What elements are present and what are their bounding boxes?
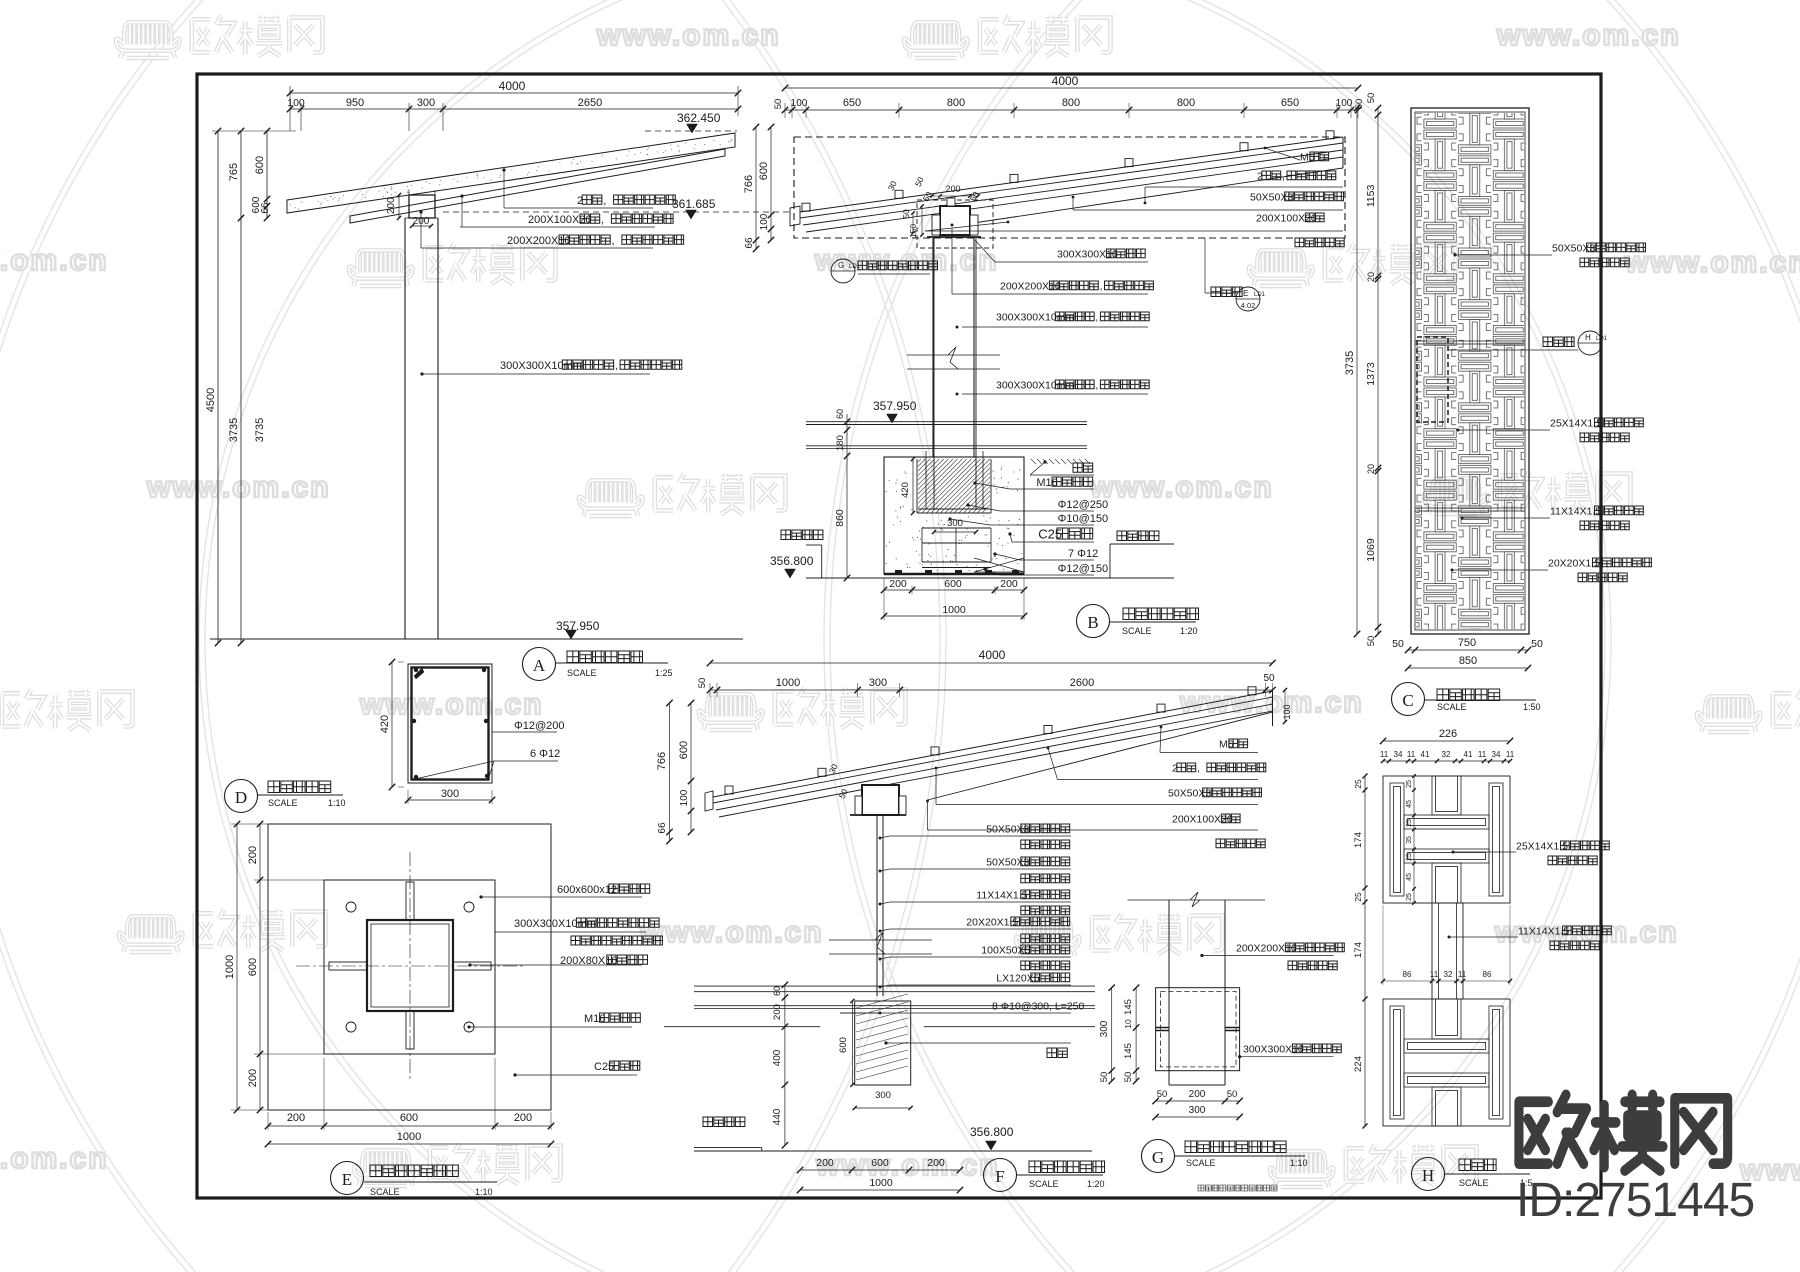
svg-text:145: 145	[1123, 999, 1134, 1015]
svg-text:10: 10	[1123, 1019, 1133, 1029]
A ground line	[210, 638, 743, 640]
svg-text:11: 11	[1458, 970, 1467, 979]
svg-text:86: 86	[1403, 970, 1412, 979]
svg-text:www.om.cn: www.om.cn	[0, 244, 109, 277]
svg-text:25: 25	[1406, 853, 1413, 861]
svg-text:45: 45	[1406, 873, 1413, 881]
svg-text:1153: 1153	[1365, 185, 1377, 208]
B detail bubble E/LD1	[1204, 238, 1206, 293]
svg-text:100: 100	[791, 98, 808, 109]
svg-text:SCALE: SCALE	[567, 668, 597, 678]
svg-text:E: E	[342, 1170, 352, 1189]
svg-text:300: 300	[1099, 1020, 1110, 1037]
svg-text:25: 25	[1406, 893, 1413, 901]
svg-text:11: 11	[1478, 750, 1487, 759]
E column 300	[367, 920, 453, 1011]
svg-text:860: 860	[834, 509, 846, 527]
svg-text:950: 950	[346, 97, 364, 109]
G column tube	[1168, 900, 1170, 1085]
svg-text:50: 50	[1392, 638, 1404, 650]
B break symbol	[907, 354, 1000, 356]
svg-text:11: 11	[1430, 970, 1439, 979]
svg-text:1000: 1000	[942, 604, 966, 616]
B anchor hatch zone	[916, 459, 918, 513]
svg-text:25: 25	[1353, 779, 1363, 789]
svg-text:www.om.cn: www.om.cn	[639, 916, 824, 949]
svg-text:32: 32	[1444, 970, 1453, 979]
B carport slab right	[1117, 531, 1159, 541]
svg-text:400: 400	[772, 1049, 783, 1066]
svg-text:,: ,	[1095, 311, 1098, 323]
A label 300X300X10 column	[420, 372, 423, 375]
svg-text:200X80X10: 200X80X10	[560, 955, 618, 967]
svg-text:1000: 1000	[397, 1131, 421, 1143]
C right labels	[1454, 254, 1457, 257]
svg-text:440: 440	[772, 1108, 783, 1125]
F left dims	[669, 703, 671, 841]
B G/LD1 bubble left	[831, 259, 855, 283]
svg-text:SCALE: SCALE	[370, 1187, 400, 1197]
svg-text:50: 50	[1227, 1089, 1238, 1100]
E outer pad	[268, 824, 551, 1110]
svg-text:1:10: 1:10	[475, 1187, 493, 1197]
B foundation block	[884, 457, 1024, 574]
svg-text:300X300X10mm: 300X300X10mm	[514, 918, 596, 930]
svg-text:34: 34	[1394, 750, 1403, 759]
svg-text:50X50X3: 50X50X3	[1250, 191, 1293, 203]
svg-text:66: 66	[260, 202, 271, 214]
svg-text:SCALE: SCALE	[1122, 626, 1152, 636]
G labels	[1200, 954, 1203, 957]
svg-text:200X200X10: 200X200X10	[1236, 942, 1297, 954]
svg-text:100: 100	[1282, 704, 1292, 719]
svg-text:Φ10@150: Φ10@150	[1058, 513, 1109, 525]
svg-text:200: 200	[927, 1157, 945, 1169]
svg-text:850: 850	[1459, 655, 1477, 667]
G title bubble	[1142, 1140, 1175, 1173]
svg-text:11X14X1.5: 11X14X1.5	[1550, 505, 1601, 517]
B roof slabs	[800, 137, 1343, 212]
E labels	[479, 895, 482, 898]
svg-text:600: 600	[247, 958, 259, 976]
svg-text:4000: 4000	[499, 79, 526, 93]
svg-text:,: ,	[612, 235, 615, 247]
svg-text:G: G	[1152, 1148, 1164, 1167]
svg-text:200: 200	[386, 197, 397, 214]
svg-text:H: H	[1422, 1166, 1434, 1185]
svg-text:600: 600	[678, 741, 690, 759]
svg-text:200: 200	[889, 578, 907, 590]
svg-text:2600: 2600	[1070, 677, 1094, 689]
B top dims	[785, 87, 1358, 89]
H inner small dims	[1413, 776, 1415, 902]
F carport label	[703, 1117, 745, 1127]
A label 200X100X20 H steel	[460, 194, 463, 197]
svg-text:,: ,	[601, 214, 604, 226]
C lattice pattern	[1416, 113, 1524, 629]
H left dims	[1364, 776, 1366, 1126]
svg-text:200: 200	[816, 1157, 834, 1169]
F title bubble	[984, 1159, 1017, 1192]
svg-text:100: 100	[287, 97, 305, 109]
svg-text:www.om.cn: www.om.cn	[1496, 19, 1681, 52]
svg-text:4000: 4000	[1052, 74, 1079, 88]
B left found dims	[846, 414, 848, 578]
svg-text:800: 800	[947, 97, 965, 109]
A title bubble	[523, 648, 556, 681]
svg-text:SCALE: SCALE	[1459, 1178, 1489, 1188]
svg-text:50: 50	[1366, 93, 1377, 104]
svg-text:1000: 1000	[869, 1177, 893, 1189]
svg-text:6 Φ12: 6 Φ12	[530, 748, 560, 760]
svg-text:150: 150	[908, 224, 918, 238]
D beam section	[408, 664, 492, 783]
E center lines	[296, 965, 523, 967]
svg-text:11: 11	[1380, 750, 1389, 759]
svg-text:50X50X3: 50X50X3	[1168, 787, 1211, 799]
svg-text:600: 600	[758, 162, 770, 180]
svg-text:3735: 3735	[1344, 351, 1356, 375]
svg-text:,: ,	[603, 195, 606, 207]
C mid rails	[1415, 340, 1525, 342]
svg-text:356.800: 356.800	[770, 554, 814, 568]
svg-text:50X50X3: 50X50X3	[986, 823, 1029, 835]
svg-text:www.om.cn: www.om.cn	[146, 471, 331, 504]
svg-text:1000: 1000	[224, 955, 236, 979]
svg-text:200: 200	[514, 1112, 532, 1124]
svg-text:300: 300	[947, 518, 963, 529]
svg-text:50: 50	[1366, 636, 1377, 647]
D labels	[492, 731, 557, 733]
svg-text:C25: C25	[594, 1061, 614, 1073]
F pier dims	[851, 1001, 853, 1085]
svg-text:1000: 1000	[776, 677, 800, 689]
svg-text:600: 600	[254, 156, 266, 174]
svg-text:200: 200	[247, 846, 259, 864]
svg-text:SCALE: SCALE	[1437, 702, 1467, 712]
svg-text:3735: 3735	[254, 418, 266, 442]
B column into foundation	[933, 238, 935, 510]
svg-text:11X14X1.5: 11X14X1.5	[1518, 925, 1569, 937]
B dashed detail box	[794, 137, 1345, 238]
svg-text:4000: 4000	[979, 648, 1006, 662]
svg-text:M6: M6	[1300, 151, 1315, 163]
svg-text:1:20: 1:20	[1180, 626, 1198, 636]
svg-text:766: 766	[743, 175, 755, 193]
F roof slabs	[713, 691, 1273, 797]
svg-text:M16: M16	[1036, 477, 1057, 489]
D title bubble	[225, 780, 258, 813]
big site logo	[1519, 1095, 1728, 1171]
B 420 dim	[912, 459, 914, 513]
E base plate 600	[324, 880, 495, 1054]
svg-text:50: 50	[1157, 1089, 1168, 1100]
F bottom dims	[800, 1169, 960, 1171]
H top dims	[1383, 740, 1510, 742]
F break symbol	[829, 939, 932, 941]
C left dims	[1356, 108, 1358, 634]
C bottom dims	[1408, 649, 1528, 651]
F dijia label	[884, 1041, 887, 1044]
svg-text:50: 50	[1531, 638, 1543, 650]
svg-text:H: H	[1585, 333, 1591, 342]
svg-text:25: 25	[1406, 780, 1413, 788]
C panel frame	[1411, 108, 1529, 634]
svg-text:50X50X3: 50X50X3	[986, 856, 1029, 868]
svg-text:20: 20	[1366, 464, 1376, 474]
B purlins	[802, 203, 810, 211]
E title bubble	[331, 1162, 364, 1195]
svg-text:750: 750	[1458, 637, 1476, 649]
E anchor bolts	[346, 902, 356, 912]
svg-text:,: ,	[1197, 762, 1200, 774]
E stiffener arms	[329, 962, 367, 970]
svg-text:600: 600	[838, 1037, 849, 1053]
B cap dims	[932, 195, 978, 197]
G bottom dims	[1156, 1100, 1240, 1102]
svg-text:SCALE: SCALE	[1029, 1179, 1059, 1189]
F ground line	[694, 1150, 1092, 1152]
A top dims	[290, 92, 738, 94]
svg-text:356.800: 356.800	[970, 1125, 1014, 1139]
B foundation bottom bold	[884, 573, 1024, 576]
B 300 dim	[934, 527, 976, 529]
svg-text:1:50: 1:50	[1523, 702, 1541, 712]
svg-text:1373: 1373	[1365, 362, 1377, 386]
svg-text:SCALE: SCALE	[268, 798, 298, 808]
B bottom dims	[884, 589, 1024, 591]
svg-text:200X100X20: 200X100X20	[1172, 813, 1233, 825]
svg-text:45: 45	[1406, 800, 1413, 808]
svg-text:LD1: LD1	[1254, 292, 1266, 298]
svg-text:1:10: 1:10	[328, 798, 346, 808]
svg-text:11X14X1.5: 11X14X1.5	[976, 889, 1027, 901]
svg-text:www.om.cn: www.om.cn	[596, 19, 781, 52]
F strut	[876, 815, 878, 996]
svg-text:300: 300	[417, 97, 435, 109]
A left dims	[217, 131, 219, 643]
svg-text:,: ,	[1282, 170, 1285, 182]
svg-text:1:20: 1:20	[1087, 1179, 1105, 1189]
B found top plate	[884, 456, 1024, 458]
svg-text:www.om.cn: www.om.cn	[1089, 471, 1274, 504]
svg-text:11: 11	[1407, 750, 1416, 759]
F top dims	[710, 662, 1273, 664]
svg-text:50: 50	[901, 209, 911, 219]
svg-text:600: 600	[871, 1157, 889, 1169]
svg-text:100X50X5: 100X50X5	[981, 944, 1030, 956]
svg-text:226: 226	[1439, 728, 1457, 740]
svg-text:LX120X5: LX120X5	[996, 972, 1039, 984]
B ground slabs	[806, 421, 1087, 423]
svg-text:600x600x12: 600x600x12	[557, 884, 617, 896]
svg-text:300X300X10mm: 300X300X10mm	[500, 360, 582, 372]
sheet frame	[197, 74, 1601, 1198]
svg-text:200: 200	[1189, 1089, 1206, 1100]
svg-text:300: 300	[441, 788, 459, 800]
H title bubble	[1412, 1158, 1445, 1191]
svg-text:180: 180	[835, 435, 846, 451]
svg-text:41: 41	[1464, 750, 1473, 759]
svg-text:300: 300	[869, 677, 887, 689]
svg-text:300X300X10: 300X300X10	[1243, 1043, 1304, 1055]
svg-text:60: 60	[772, 986, 782, 996]
svg-text:357.950: 357.950	[556, 619, 600, 633]
E left dims	[236, 824, 238, 1110]
svg-text:50X50X3: 50X50X3	[1552, 242, 1595, 254]
svg-text:M16: M16	[584, 1013, 605, 1025]
C dashed detail box	[1417, 337, 1448, 422]
svg-text:174: 174	[1353, 942, 1364, 958]
svg-text:200X200X10: 200X200X10	[507, 235, 571, 247]
svg-text:600: 600	[944, 578, 962, 590]
svg-text:100: 100	[759, 213, 770, 230]
svg-text:200X100X20: 200X100X20	[1256, 212, 1317, 224]
C detail bubble H/LD1	[1543, 337, 1574, 347]
svg-text:200X100X20: 200X100X20	[528, 214, 592, 226]
svg-text:224: 224	[1353, 1056, 1364, 1072]
svg-text:50: 50	[1123, 1072, 1134, 1083]
G seam plates	[1156, 1027, 1169, 1029]
svg-text:145: 145	[1123, 1043, 1134, 1059]
svg-text:1:25: 1:25	[655, 668, 673, 678]
svg-text:20: 20	[1366, 272, 1376, 282]
C title bubble	[1392, 683, 1425, 716]
svg-text:F: F	[995, 1167, 1004, 1186]
svg-text:300X300X10mm: 300X300X10mm	[996, 379, 1074, 391]
B cap 200x200	[940, 206, 970, 235]
svg-text:B: B	[1087, 613, 1098, 632]
G break top	[1128, 899, 1266, 901]
svg-text:100: 100	[679, 789, 690, 806]
B title bubble	[1077, 605, 1110, 638]
svg-text:25: 25	[1406, 819, 1413, 827]
B foundation speckle	[985, 535, 986, 536]
svg-text:2650: 2650	[578, 97, 602, 109]
F pier	[855, 1001, 911, 1085]
A column cap	[409, 195, 435, 218]
svg-text:300: 300	[1189, 1105, 1206, 1116]
svg-text:G: G	[838, 261, 844, 270]
A label 200X200X10 tube	[419, 210, 422, 213]
svg-text:,: ,	[1100, 280, 1103, 292]
svg-text:361.685: 361.685	[672, 197, 716, 211]
svg-text:7 Φ12: 7 Φ12	[1068, 548, 1098, 560]
B carport slab left	[781, 530, 823, 540]
svg-text:8 Φ10@300, L=250: 8 Φ10@300, L=250	[992, 1000, 1084, 1012]
svg-text:60: 60	[835, 409, 845, 419]
svg-text:420: 420	[900, 482, 911, 498]
svg-text:41: 41	[1421, 750, 1430, 759]
svg-text:ID:2751445: ID:2751445	[1516, 1174, 1754, 1227]
svg-text:800: 800	[1062, 97, 1080, 109]
B ground line	[806, 577, 1174, 579]
svg-text:www.om.cn: www.om.cn	[815, 1149, 1000, 1182]
svg-text:50: 50	[697, 678, 708, 689]
svg-text:50: 50	[1354, 99, 1365, 110]
A label 2mm alum plate	[502, 168, 505, 171]
svg-text:,: ,	[1095, 379, 1098, 391]
svg-text:86: 86	[1483, 970, 1492, 979]
H block 2	[1383, 999, 1510, 1126]
svg-text:650: 650	[843, 97, 861, 109]
svg-text:34: 34	[1492, 750, 1501, 759]
svg-text:4.02: 4.02	[1241, 301, 1256, 310]
svg-text:200: 200	[287, 1112, 305, 1124]
svg-text:300X300X10mm: 300X300X10mm	[996, 311, 1074, 323]
svg-text:357.950: 357.950	[873, 399, 917, 413]
svg-text:4500: 4500	[205, 388, 217, 412]
svg-text:,: ,	[615, 360, 618, 372]
svg-text:200X200X10: 200X200X10	[1000, 280, 1061, 292]
B left dims 766/600/100/66	[755, 127, 757, 249]
svg-text:SCALE: SCALE	[1186, 1158, 1216, 1168]
D dims	[391, 662, 393, 787]
B right labels stack	[1073, 463, 1093, 472]
svg-text:C: C	[1402, 691, 1413, 710]
svg-text:300: 300	[875, 1090, 891, 1101]
svg-text:650: 650	[1281, 97, 1299, 109]
svg-text:50: 50	[1099, 1072, 1110, 1083]
svg-text:A: A	[533, 656, 546, 675]
svg-text:420: 420	[379, 715, 391, 733]
svg-text:200: 200	[1000, 578, 1018, 590]
H block 1	[1383, 776, 1510, 903]
G note	[1198, 1185, 1277, 1191]
E bottom dims	[268, 1125, 551, 1127]
svg-text:300X300X10: 300X300X10	[1057, 248, 1118, 260]
svg-text:66: 66	[744, 237, 755, 249]
svg-text:D: D	[235, 788, 247, 807]
svg-text:100: 100	[1336, 98, 1353, 109]
svg-text:200: 200	[247, 1069, 259, 1087]
A roof slab	[287, 133, 735, 213]
svg-text:32: 32	[1442, 750, 1451, 759]
F cap	[862, 785, 899, 815]
watermarks	[116, 22, 180, 58]
svg-text:766: 766	[656, 752, 668, 770]
svg-text:35: 35	[1406, 836, 1413, 844]
svg-text:66: 66	[657, 822, 668, 834]
H labels	[1452, 851, 1455, 854]
F ground slabs	[694, 985, 1095, 987]
svg-text:362.450: 362.450	[677, 111, 721, 125]
svg-text:www.om.cn: www.om.cn	[0, 1142, 109, 1175]
svg-text:www.om.cn: www.om.cn	[1624, 246, 1800, 279]
svg-text:800: 800	[1177, 97, 1195, 109]
svg-text:Φ12@250: Φ12@250	[1058, 499, 1109, 511]
svg-text:E: E	[1243, 289, 1248, 298]
F right 100 dim	[1284, 690, 1286, 722]
svg-text:200: 200	[945, 184, 960, 194]
svg-text:11: 11	[1506, 750, 1515, 759]
A column 300x300	[404, 218, 406, 639]
G left dims	[1111, 988, 1113, 1081]
B rebar steps	[922, 527, 991, 529]
svg-text:M6: M6	[1219, 738, 1234, 750]
svg-text:200: 200	[772, 1004, 783, 1020]
H connector	[1431, 903, 1433, 999]
svg-text:600: 600	[400, 1112, 418, 1124]
B column	[932, 238, 934, 457]
svg-text:Φ12@150: Φ12@150	[1058, 563, 1109, 575]
F purlins	[725, 786, 733, 794]
svg-text:765: 765	[228, 163, 240, 181]
svg-text:25: 25	[1353, 892, 1363, 902]
svg-text:50: 50	[1263, 673, 1275, 684]
svg-text:1:10: 1:10	[1290, 1158, 1308, 1168]
svg-text:174: 174	[1353, 832, 1364, 848]
